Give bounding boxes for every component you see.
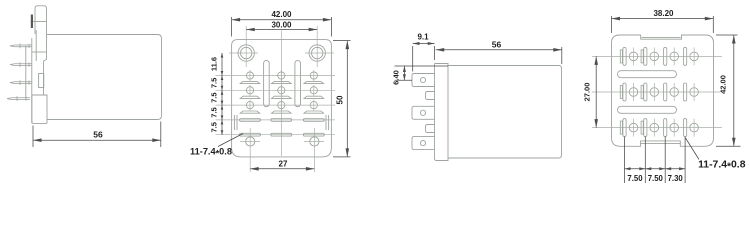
pin hole circle P8 (col 3 row 2) (310, 87, 317, 94)
30.00 (246, 29, 317, 31)
pin hole circle H1 (629, 52, 638, 61)
svg-text:7.5: 7.5 (209, 122, 218, 132)
pin hole circle P7 (col 3 row 1) (310, 72, 317, 79)
pin hole circle P1 (col 1 row 1) (246, 72, 253, 79)
small tab 2 (426, 125, 435, 133)
dimensions view4 (596, 16, 740, 183)
pin hole circle P4 (col 2 row 1) (278, 72, 285, 79)
pin hole circle H11 (670, 123, 679, 132)
pin hole circle H4 (690, 52, 699, 61)
blade slot T1 (row 1 pos 1) (623, 47, 626, 65)
body outline (232, 40, 332, 157)
lower slot S5 (303, 119, 324, 122)
svg-text:7.30: 7.30 (668, 174, 684, 183)
blade 1 (412, 74, 435, 87)
relay body outline (47, 35, 162, 120)
svg-text:7.50: 7.50 (627, 174, 643, 183)
dimensions view3 (395, 44, 562, 81)
blade slot T9 (row 3 pos 1) (623, 119, 626, 137)
pin blade slot B7 (304, 81, 324, 83)
lower slot S1 (240, 119, 261, 122)
pin blade slot B8 (304, 96, 324, 98)
svg-text:42.00: 42.00 (719, 75, 728, 94)
horizontal slot 1 (618, 71, 677, 78)
blade slot T7 (row 2 pos 3) (664, 83, 667, 101)
pin hole circle P2 (col 1 row 2) (246, 87, 253, 94)
blade 3 (412, 137, 435, 150)
pin blade slot B4 (272, 81, 292, 83)
svg-text:7.5: 7.5 (209, 78, 218, 88)
base inner vertical (25, 46, 27, 99)
svg-text:7.5: 7.5 (209, 92, 218, 102)
svg-text:27: 27 (279, 160, 288, 169)
lower slot S4 (271, 133, 292, 136)
pin blade slot B1 (240, 81, 260, 83)
mounting hole bottom-left (246, 137, 255, 146)
pin blade slot B2 (240, 96, 260, 98)
blade slot T8 (row 2 pos 4) (684, 83, 687, 101)
right notch lines (326, 115, 329, 130)
VIEW 1 : relay side view (26, 6, 162, 124)
pin hole circle H9 (629, 123, 638, 132)
top notch inner line (642, 36, 681, 38)
svg-text:9.1: 9.1 (417, 33, 429, 42)
6.40 ext (395, 65, 449, 67)
blade slot T10 (row 3 pos 2) (644, 119, 647, 137)
mounting hole bottom-right (310, 137, 319, 146)
horizontal slot 2 (618, 106, 677, 113)
svg-text:11.6: 11.6 (209, 57, 218, 71)
mounting hole top-right (309, 45, 325, 61)
42.00 (231, 17, 233, 37)
pin blade slot B6 (272, 111, 292, 113)
lower slot S2 (240, 133, 261, 136)
VIEW 4 : bottom view with blade slots (612, 35, 714, 146)
pin 2 (10, 64, 32, 66)
svg-text:11-7.4*0.8: 11-7.4*0.8 (698, 159, 746, 172)
VIEW 3 : relay side view with blade pins (412, 64, 562, 161)
pin 4 (7, 98, 30, 100)
blade slot T5 (row 2 pos 1) (623, 83, 626, 101)
base front vertical (31, 38, 33, 123)
pin hole circle P9 (col 3 row 3) (310, 102, 317, 109)
body left edge (44, 35, 47, 96)
body (448, 66, 562, 159)
lower slot S3 (271, 119, 292, 122)
50 right (333, 40, 351, 42)
pin hole circle H12 (690, 123, 699, 132)
pin hole circle H7 (670, 88, 679, 97)
left notch lines (234, 115, 237, 130)
pin hole circle P5 (col 2 row 2) (278, 87, 285, 94)
small tab 1 (426, 92, 435, 100)
base window (39, 74, 44, 88)
svg-text:6.40: 6.40 (391, 70, 400, 85)
27.00 (595, 56, 597, 127)
pin hole circle H8 (690, 88, 699, 97)
pin blade slot B3 (240, 111, 260, 113)
vertical slot right (295, 60, 301, 106)
pin blade slot B5 (272, 96, 292, 98)
dimension 56 (view1) (33, 122, 161, 148)
base joint vertical (35, 30, 37, 61)
svg-text:56: 56 (492, 39, 502, 49)
svg-text:56: 56 (93, 130, 103, 140)
pin hole circle H5 (629, 88, 638, 97)
bottom notch inner line (641, 142, 681, 144)
pin 3 (10, 82, 32, 84)
42.00 (716, 34, 738, 36)
blade slot T12 (row 3 pos 4) (684, 119, 687, 137)
leader 11-7.4*0.8 (218, 134, 243, 147)
flange strip (435, 64, 449, 161)
pin hole circle H3 (670, 52, 679, 61)
pin hole circle P6 (col 2 row 3) (278, 102, 285, 109)
svg-text:30.00: 30.00 (271, 20, 292, 29)
27 bottom (250, 168, 314, 170)
tab cross line (31, 21, 47, 23)
top tab (35, 6, 47, 34)
svg-text:27.00: 27.00 (583, 83, 592, 102)
pin 1 (10, 45, 32, 47)
dimensions view2 (218, 17, 351, 169)
blade slot T3 (row 1 pos 3) (664, 47, 667, 65)
pin hole circle P3 (col 1 row 3) (246, 102, 253, 109)
blade slot T4 (row 1 pos 4) (684, 47, 687, 65)
blade slot T2 (row 1 pos 2) (644, 47, 647, 65)
VIEW 2 : bottom view (pin face) (232, 40, 332, 157)
clip dark mark (31, 15, 33, 29)
svg-text:38.20: 38.20 (653, 9, 674, 18)
svg-text:42.00: 42.00 (271, 10, 292, 19)
pin hole circle H2 (650, 52, 659, 61)
pin hole circle H6 (650, 88, 659, 97)
svg-text:7.50: 7.50 (648, 174, 664, 183)
svg-text:50: 50 (336, 95, 345, 104)
base bottom box (32, 95, 47, 123)
9.1 (412, 46, 414, 72)
pin blade slot B9 (304, 111, 324, 113)
base step line (32, 51, 47, 53)
blade slot T6 (row 2 pos 2) (644, 83, 647, 101)
blade 2 (412, 106, 435, 119)
pin rows view4 placeholder (618, 47, 699, 136)
blade slot T11 (row 3 pos 3) (664, 119, 667, 137)
lower slot S6 (303, 133, 324, 136)
vertical slot left (264, 60, 270, 106)
leader (686, 138, 700, 160)
pin cluster view2 (240, 70, 325, 136)
56 (561, 47, 563, 64)
pins view1 (7, 44, 32, 102)
bottom chain ext lines (624, 137, 626, 184)
body outline with notches (612, 35, 714, 146)
mounting hole top-left (238, 45, 254, 61)
svg-text:11-7.4*0.8: 11-7.4*0.8 (190, 147, 232, 159)
bottom chain line (625, 168, 686, 170)
svg-text:7.5: 7.5 (209, 107, 218, 117)
centerlines view2 (216, 26, 336, 172)
pin hole circle H10 (650, 123, 659, 132)
38.20 (611, 16, 613, 33)
left chain line (221, 53, 223, 135)
centerlines view4 (592, 56, 722, 127)
